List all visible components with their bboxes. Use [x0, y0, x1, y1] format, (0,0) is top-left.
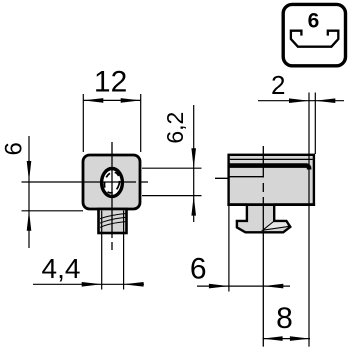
- tab chamfer curves: [100, 214, 125, 228]
- dimension 2 extension line long: [308, 93, 310, 347]
- side view thick band: [229, 166, 310, 170]
- svg-text:8: 8: [276, 302, 293, 335]
- side view lug outline: [237, 206, 290, 233]
- side view lug neck fill: [247, 203, 274, 221]
- dimension 12 extension lines: [82, 94, 84, 152]
- front view hole: [102, 169, 123, 197]
- hole thread dashed ellipse: [102, 170, 122, 194]
- front view body: [83, 155, 140, 209]
- dimension 2 line: [258, 100, 344, 102]
- svg-text:6,2: 6,2: [162, 112, 188, 144]
- svg-text:4,4: 4,4: [42, 253, 81, 284]
- front view horizontal centerline: [22, 181, 149, 183]
- svg-text:2: 2: [271, 70, 285, 100]
- dimension 6 bottom line: [197, 285, 290, 287]
- dimension 4,4 line: [33, 283, 144, 285]
- dimension 6,2 line: [193, 105, 195, 222]
- side view spring plate line: [230, 158, 313, 160]
- side view wing fill: [237, 221, 290, 232]
- svg-text:6: 6: [308, 10, 320, 33]
- side view vertical centerline: [262, 146, 264, 347]
- dimension 6 bottom extension line: [228, 206, 230, 292]
- dimension 6 left extension line: [22, 210, 84, 212]
- svg-text:6: 6: [0, 142, 27, 155]
- dimension 6 left line: [28, 136, 30, 248]
- svg-text:6: 6: [190, 253, 207, 286]
- side view horizontal centerline: [215, 177, 309, 179]
- front view tab (lug seen from front): [99, 209, 127, 233]
- side view step lines: [229, 176, 264, 178]
- icon box: [283, 4, 345, 65]
- dimension 12 line: [83, 99, 140, 101]
- dimension 6,2 extension lines: [142, 167, 202, 169]
- lug neck edges / 4,4 extension lines: [101, 211, 103, 290]
- side view body: [229, 155, 314, 205]
- front view vertical centerline: [111, 142, 113, 250]
- side view body bottom edge: [227, 203, 315, 206]
- side view chamfer face: [263, 221, 289, 230]
- dimension 2 extension line short: [314, 93, 316, 155]
- svg-text:12: 12: [94, 66, 127, 99]
- icon profile symbol: [291, 31, 338, 47]
- dimension 8 line: [263, 338, 310, 340]
